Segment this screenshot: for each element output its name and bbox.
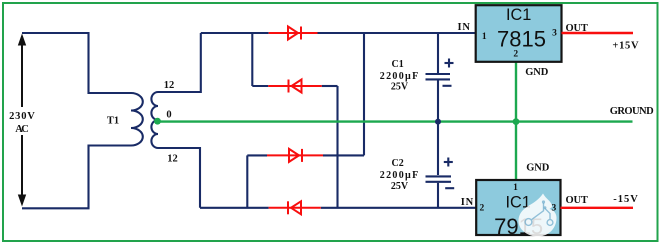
- svg-text:1: 1: [482, 32, 487, 42]
- svg-text:C1: C1: [391, 59, 403, 70]
- svg-text:C2: C2: [391, 158, 403, 169]
- svg-text:1: 1: [513, 183, 518, 193]
- svg-text:2: 2: [480, 204, 485, 214]
- svg-text:2200µF: 2200µF: [380, 170, 419, 181]
- svg-text:7815: 7815: [497, 26, 546, 51]
- svg-text:3: 3: [552, 204, 557, 214]
- svg-text:T1: T1: [107, 116, 119, 127]
- svg-text:IN: IN: [461, 197, 474, 208]
- svg-text:25V: 25V: [391, 181, 409, 192]
- svg-text:2: 2: [513, 49, 518, 59]
- svg-text:12: 12: [167, 154, 178, 165]
- svg-text:25V: 25V: [391, 82, 409, 93]
- svg-text:12: 12: [164, 80, 175, 91]
- svg-text:GROUND: GROUND: [610, 106, 654, 117]
- svg-text:IN: IN: [457, 22, 470, 33]
- svg-text:2200µF: 2200µF: [380, 71, 419, 82]
- svg-text:+15V: +15V: [612, 41, 639, 52]
- svg-text:OUT: OUT: [565, 195, 588, 206]
- svg-text:OUT: OUT: [565, 23, 588, 34]
- svg-text:3: 3: [552, 29, 557, 39]
- svg-text:0: 0: [166, 110, 171, 121]
- svg-text:IC1: IC1: [506, 6, 531, 24]
- svg-text:GND: GND: [525, 67, 548, 78]
- svg-text:AC: AC: [15, 124, 29, 135]
- svg-text:230V: 230V: [9, 111, 35, 122]
- svg-text:-15V: -15V: [613, 194, 638, 205]
- svg-text:GND: GND: [526, 162, 549, 173]
